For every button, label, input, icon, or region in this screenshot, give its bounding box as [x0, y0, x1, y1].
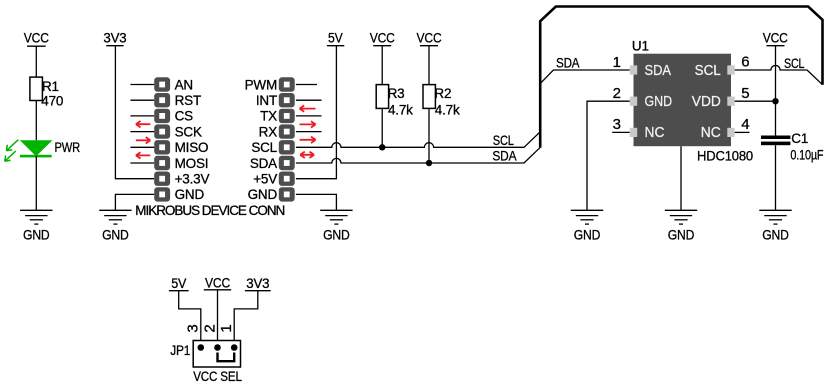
junction VCC-pin5 [772, 98, 778, 104]
power flag VCC (left, above R1) [24, 31, 49, 47]
wire stub RX [296, 131, 322, 133]
svg-text:GND: GND [668, 228, 695, 243]
svg-text:SCL: SCL [784, 56, 805, 71]
wire stub PWM [296, 84, 317, 86]
svg-text:0.10µF: 0.10µF [790, 148, 823, 163]
svg-text:6: 6 [741, 54, 749, 71]
wire stub TX [296, 115, 322, 117]
junction R3-SCL [379, 144, 385, 150]
svg-text:4: 4 [741, 116, 749, 133]
resistor R2 4.7k [423, 85, 460, 118]
svg-text:AN: AN [175, 77, 193, 92]
svg-text:+3.3V: +3.3V [175, 172, 210, 187]
svg-text:R1: R1 [42, 79, 59, 94]
svg-text:4.7k: 4.7k [388, 102, 413, 117]
svg-text:VCC SEL: VCC SEL [193, 369, 242, 384]
wire stub SCK [130, 131, 154, 133]
wire 3V3 down to +3.3V pin [115, 46, 154, 179]
svg-text:5V: 5V [171, 276, 186, 291]
wire 5V down to +5V pin [296, 46, 337, 179]
svg-text:RX: RX [259, 124, 278, 139]
red arrow below INT (left) [300, 105, 316, 111]
IC U1 HDC1080 [630, 39, 753, 164]
wire stub U1 pin3 [612, 131, 630, 133]
wire R3 to SCL [381, 108, 383, 147]
svg-text:4.7k: 4.7k [435, 102, 460, 117]
svg-text:3V3: 3V3 [103, 31, 126, 46]
power flag 5V [327, 31, 344, 46]
power flag VCC (above R2) [417, 31, 442, 46]
svg-text:CS: CS [175, 109, 194, 124]
ground (under U1 pin2) [571, 210, 603, 242]
wire C1 to ground [775, 145, 777, 210]
power flag 3V3 [103, 31, 126, 46]
wire R1 to LED [35, 101, 37, 141]
svg-text:5V: 5V [328, 31, 343, 46]
svg-text:2: 2 [201, 324, 218, 332]
resistor R1 470 [30, 77, 63, 108]
red arrow below SCL (double) [300, 152, 314, 158]
svg-text:5: 5 [741, 85, 749, 102]
wire 5V to JP1 pin3 [179, 291, 201, 348]
wire GND pin right to ground [296, 194, 337, 210]
pin pad 2 [630, 97, 637, 106]
svg-text:NC: NC [645, 124, 665, 141]
svg-text:GND: GND [175, 187, 205, 202]
power flag VCC (JP1) [204, 276, 231, 291]
wire stub RST [130, 99, 154, 101]
svg-text:VCC: VCC [205, 276, 230, 291]
svg-text:SDA: SDA [645, 62, 672, 79]
svg-text:C1: C1 [791, 131, 808, 146]
svg-text:GND: GND [323, 228, 350, 243]
svg-text:MOSI: MOSI [175, 156, 209, 171]
svg-text:SCL: SCL [695, 62, 721, 79]
svg-text:VCC: VCC [763, 31, 788, 46]
resistor R3 4.7k [376, 85, 413, 118]
pin pad 1 [630, 65, 637, 74]
svg-text:TX: TX [260, 109, 277, 124]
svg-text:3V3: 3V3 [246, 276, 269, 291]
wire U1 pin6 to SCL (hop over VCC column) [735, 65, 807, 70]
wire SDA net (with hop over 5V column) [296, 148, 540, 163]
ground (under C1) [759, 210, 791, 242]
wire VCC down to C1 [775, 46, 777, 136]
power flag VCC (above C1) [763, 31, 788, 46]
svg-text:SCK: SCK [175, 124, 202, 139]
ground (under LED) [20, 210, 52, 242]
svg-text:2: 2 [613, 85, 621, 102]
jumper JP1 [170, 341, 242, 385]
wire R2 to SDA (passes through SCL hop) [428, 108, 430, 163]
LED PWR (green) [5, 140, 81, 162]
svg-text:+5V: +5V [253, 172, 277, 187]
red arrow below SCK (right) [136, 137, 150, 143]
pin pad 6 [727, 65, 734, 74]
red arrow below CS (left) [136, 121, 150, 127]
svg-text:MIKROBUS DEVICE CONN: MIKROBUS DEVICE CONN [135, 203, 285, 218]
power flag 5V (JP1) [169, 276, 189, 291]
red arrow below RX (right) [300, 137, 316, 143]
wire 3V3 to JP1 pin1 [234, 291, 258, 348]
capacitor C1 0.10uF [761, 131, 823, 163]
wire U1 bottom to ground [680, 146, 682, 210]
svg-text:HDC1080: HDC1080 [697, 149, 753, 164]
wire stub MISO [130, 146, 154, 148]
svg-text:SDA: SDA [250, 156, 277, 171]
junction R2-SDA [426, 160, 432, 166]
pin pad 4 [727, 128, 734, 137]
svg-text:MISO: MISO [175, 140, 209, 155]
svg-text:SCL: SCL [251, 140, 277, 155]
svg-text:470: 470 [41, 94, 63, 109]
svg-text:PWR: PWR [55, 140, 81, 155]
svg-text:SDA: SDA [556, 56, 580, 71]
svg-text:VCC: VCC [417, 31, 442, 46]
ground (under 3V3 column) [99, 210, 131, 242]
svg-text:R3: R3 [388, 86, 405, 101]
wire GND pin to ground [115, 194, 154, 210]
svg-text:INT: INT [256, 93, 277, 108]
wire SDA peel-off to U1 pin1 [540, 70, 630, 84]
ground (under U1) [665, 210, 697, 242]
wire diagonal loop to pin6 [807, 70, 823, 85]
svg-text:RST: RST [175, 93, 201, 108]
wire VCC to R1 [35, 46, 37, 77]
svg-text:NC: NC [701, 124, 721, 141]
power flag 3V3 (JP1) [245, 276, 271, 291]
wire VCC to R3 [381, 46, 383, 85]
svg-text:VDD: VDD [692, 93, 721, 110]
svg-text:GND: GND [248, 187, 278, 202]
svg-text:1: 1 [613, 54, 621, 71]
pin pad 3 [630, 128, 637, 137]
svg-text:SCL: SCL [493, 133, 515, 148]
svg-text:3: 3 [613, 116, 621, 133]
red arrow below TX (right) [300, 121, 316, 127]
wire stub CS [130, 115, 154, 117]
wire VCC to R2 [428, 46, 430, 85]
svg-text:1: 1 [218, 324, 235, 332]
svg-text:VCC: VCC [370, 31, 395, 46]
svg-text:GND: GND [574, 228, 601, 243]
red arrow below MISO (left) [136, 152, 150, 158]
wire stub U1 pin4 [735, 131, 750, 133]
svg-text:SDA: SDA [492, 149, 516, 164]
wire SCL net (with hops over 5V and R2 columns) [296, 132, 540, 147]
svg-text:GND: GND [762, 228, 789, 243]
svg-text:U1: U1 [632, 39, 649, 54]
wire stub MOSI [130, 162, 154, 164]
pin pad 5 [727, 97, 734, 106]
connector CN2 right (mikrobus) pads [279, 77, 295, 201]
svg-text:GND: GND [645, 93, 673, 110]
wire stub INT [296, 99, 322, 101]
power flag VCC (above R3) [370, 31, 395, 46]
ground (under 5V column) [320, 210, 352, 242]
wire LED to GND [35, 156, 37, 210]
svg-text:JP1: JP1 [170, 343, 190, 358]
svg-text:R2: R2 [434, 86, 451, 101]
wire stub AN [130, 84, 154, 86]
wire U1 pin5 to VCC column [735, 100, 776, 102]
wire VCC to JP1 pin2 [217, 290, 219, 348]
connector CN1 left (mikrobus) pads [154, 77, 170, 201]
svg-text:3: 3 [185, 324, 202, 332]
wire U1 pin2 to ground [587, 101, 630, 210]
svg-text:GND: GND [23, 228, 50, 243]
svg-text:VCC: VCC [24, 31, 49, 46]
svg-text:PWM: PWM [245, 77, 277, 92]
svg-text:GND: GND [102, 228, 129, 243]
thick SCL loop wire over U1 [540, 7, 822, 148]
